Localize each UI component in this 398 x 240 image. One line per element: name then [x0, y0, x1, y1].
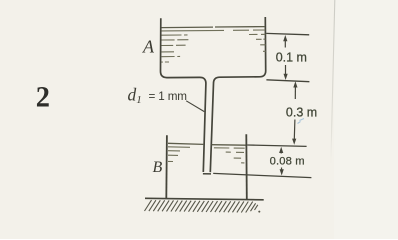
- extension line: tank B water level: [247, 145, 306, 146]
- dimension 0.1 m lower shaft and arrow: [284, 65, 288, 80]
- extension line: tube outlet level: [213, 173, 311, 177]
- capillary tube closed lower end: [203, 173, 211, 175]
- svg-text:0.3 m: 0.3 m: [286, 105, 317, 119]
- tank B left wall: [165, 135, 168, 199]
- extension line: tank A water level: [266, 33, 309, 34]
- svg-text:A: A: [142, 36, 155, 56]
- svg-text:0.08 m: 0.08 m: [270, 156, 305, 168]
- dimension 0.3 m upper shaft and arrow: [293, 81, 297, 99]
- svg-text:= 1 mm: = 1 mm: [149, 90, 187, 103]
- svg-text:2: 2: [36, 81, 50, 114]
- ground line: [145, 198, 264, 200]
- tank A water surface: [162, 27, 266, 63]
- svg-text:0.1 m: 0.1 m: [276, 50, 307, 64]
- ground hatching: [145, 200, 258, 212]
- dimension 0.08 m upper shaft and arrow: [279, 147, 283, 154]
- tank A left wall and bottom-left shoulder into tube: [161, 18, 206, 172]
- svg-text:B: B: [153, 159, 163, 176]
- dimension 0.1 m upper shaft and arrow: [283, 35, 287, 48]
- period after hatching: [258, 211, 260, 213]
- dimension 0.08 m lower shaft and arrow: [280, 168, 284, 176]
- leader line from d1 label to tube: [186, 101, 204, 112]
- tank B right wall: [245, 134, 248, 199]
- stray blue pen mark: [298, 119, 305, 124]
- extension line: tank A bottom level: [266, 80, 309, 82]
- paper right margin (lighter page edge): [334, 0, 398, 239]
- tank B water surface: [168, 143, 246, 163]
- tank A right wall and bottom-right shoulder into tube: [210, 17, 265, 172]
- page gutter line: [331, 0, 335, 165]
- dimension 0.3 m lower shaft and arrow: [292, 120, 296, 145]
